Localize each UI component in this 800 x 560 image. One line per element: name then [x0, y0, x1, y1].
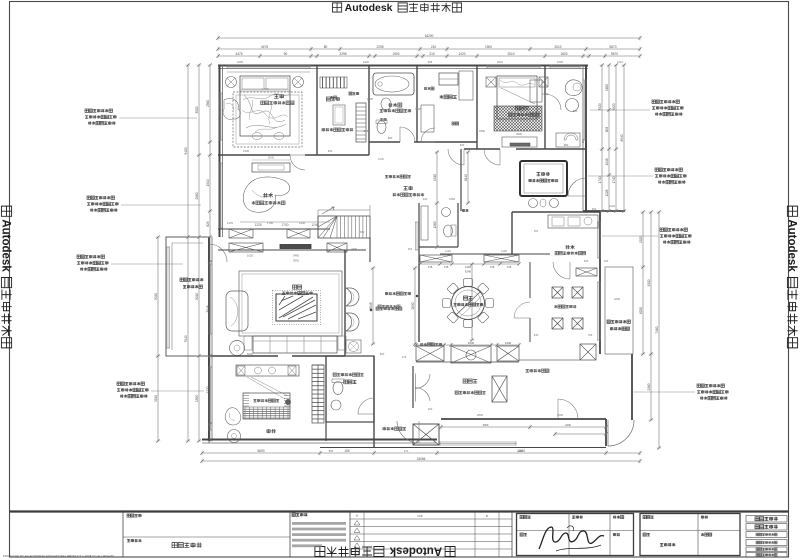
- living entry door arc from bay: [209, 244, 227, 262]
- window label right 3: [660, 228, 663, 231]
- study label: [263, 193, 268, 198]
- svg-text:900: 900: [328, 149, 333, 153]
- svg-text:1020: 1020: [458, 52, 465, 56]
- svg-text:16200: 16200: [425, 34, 434, 38]
- wall under stairs x370: [369, 237, 371, 262]
- svg-text:3520: 3520: [598, 103, 602, 110]
- ensuite sink circle: [566, 99, 579, 112]
- svg-text:1900: 1900: [363, 60, 369, 64]
- svg-text:1225: 1225: [254, 223, 261, 227]
- top dimension chain 2: [218, 48, 640, 50]
- svg-text:Autodesk: Autodesk: [786, 219, 798, 272]
- watermark right (rotated 90): [786, 206, 798, 348]
- svg-text:5670: 5670: [611, 52, 618, 56]
- west kitchen divider x530 lower: [529, 262, 531, 298]
- left dimension chain 3: [209, 65, 211, 441]
- bath sink: [381, 98, 391, 110]
- sofa side tables: [244, 336, 252, 350]
- svg-text:825: 825: [206, 221, 210, 227]
- tea room brick sunken floor: [243, 393, 290, 419]
- bottom wall left y441: [202, 439, 437, 441]
- wall closet2 right x477: [476, 65, 478, 149]
- svg-text:1248: 1248: [605, 158, 609, 165]
- living chaise left: [226, 291, 248, 331]
- exterior wall: lower right x632: [631, 354, 633, 420]
- svg-text:600: 600: [534, 229, 539, 233]
- wall closet/bath x369: [368, 65, 370, 155]
- svg-text:1800: 1800: [479, 129, 485, 133]
- master bed: [240, 76, 290, 136]
- svg-text:2295: 2295: [339, 52, 346, 56]
- svg-text:1500: 1500: [367, 97, 373, 101]
- svg-text:700: 700: [588, 333, 593, 337]
- svg-text:1025: 1025: [247, 254, 253, 258]
- inner dim master bed width: [240, 91, 290, 93]
- svg-text:160: 160: [428, 407, 433, 411]
- window label right 2: [655, 168, 658, 171]
- svg-text:600: 600: [573, 109, 578, 113]
- kitchen left wall x512: [511, 212, 513, 254]
- svg-text:1120: 1120: [445, 249, 451, 253]
- guest bath sink: [331, 400, 341, 410]
- dining chairs x8: [486, 299, 494, 308]
- svg-text:2060: 2060: [195, 192, 199, 199]
- svg-text:1225: 1225: [227, 221, 233, 225]
- wall daughter room / ensuite x545: [544, 65, 546, 149]
- living window right rail: [341, 271, 343, 336]
- left protrusion bay: [166, 237, 209, 356]
- master bedroom rug: [233, 92, 302, 147]
- svg-text:175: 175: [402, 355, 407, 359]
- svg-text:4475: 4475: [261, 45, 268, 49]
- svg-text:3460: 3460: [293, 254, 299, 258]
- stairs main: [318, 216, 370, 238]
- leisure stools: [529, 199, 538, 208]
- tv set dark rect: [280, 245, 311, 249]
- svg-text:1240: 1240: [299, 221, 305, 225]
- svg-text:800: 800: [388, 136, 393, 140]
- svg-text:1210: 1210: [617, 60, 623, 64]
- door height annotation in left bay: [180, 278, 183, 281]
- svg-text:715: 715: [428, 265, 433, 269]
- svg-text:5670: 5670: [609, 45, 616, 49]
- closet island table: [333, 105, 345, 125]
- svg-text:2560: 2560: [206, 100, 210, 107]
- svg-text:1000: 1000: [378, 157, 384, 161]
- svg-text:980: 980: [564, 143, 569, 147]
- svg-text:6600: 6600: [247, 352, 253, 356]
- corridor/hall wall x374 lower: [373, 356, 375, 448]
- svg-text:5040: 5040: [154, 293, 158, 300]
- svg-text:715: 715: [444, 265, 449, 269]
- svg-text:1360: 1360: [433, 221, 437, 228]
- svg-text:2800: 2800: [477, 413, 483, 417]
- signature box thick: [517, 514, 634, 556]
- right stack cells: [746, 516, 787, 523]
- revision triangles: [354, 521, 360, 526]
- daughter room label: [515, 106, 519, 110]
- leisure room left wall x460: [460, 149, 462, 211]
- svg-text:1650: 1650: [605, 84, 609, 91]
- svg-text:600: 600: [360, 230, 365, 234]
- bottom inner dim under elevator wall: [441, 426, 606, 428]
- kitchen label: [565, 245, 569, 249]
- small WC left x419 upper: [418, 203, 420, 264]
- svg-text:210: 210: [431, 45, 437, 49]
- window dining bottom: [440, 441, 516, 443]
- exterior wall: kitchen right x600: [599, 212, 601, 354]
- bottom dimension chain 2: [202, 460, 640, 462]
- door arc exterior bottom right: [608, 420, 634, 446]
- svg-text:298: 298: [364, 129, 369, 133]
- living sofa long: [253, 336, 337, 353]
- svg-text:1600: 1600: [557, 60, 563, 64]
- tea side cabinet ladder dark: [312, 365, 324, 423]
- guest bath toilet: [333, 382, 343, 395]
- corridor bottom label: [383, 427, 386, 430]
- cell2 drawing title text: [172, 543, 177, 548]
- stairs up arrow: [322, 207, 334, 214]
- left dimension chain 2: [198, 65, 200, 441]
- title block top line: [10, 510, 789, 512]
- kitchen right band y268-276: [576, 268, 597, 276]
- svg-text:Autodesk: Autodesk: [345, 2, 393, 14]
- svg-text:1510: 1510: [433, 174, 437, 181]
- svg-text:900: 900: [408, 247, 413, 251]
- living rug center art dark: [276, 294, 317, 321]
- svg-text:3000: 3000: [483, 423, 489, 427]
- window living left: [208, 264, 210, 334]
- guest bath walls: [326, 356, 374, 422]
- svg-text:4200: 4200: [468, 298, 472, 305]
- elevator hall label: [463, 379, 467, 383]
- west kitchen label: [554, 305, 557, 308]
- tea projector lines: [251, 377, 288, 396]
- svg-text:7460: 7460: [655, 326, 659, 333]
- svg-text:1240: 1240: [311, 223, 318, 227]
- left dimension chain 1: [187, 65, 189, 441]
- svg-text:1200: 1200: [542, 92, 548, 96]
- right dimension chain upper: [601, 65, 603, 211]
- master bed slippers: [252, 133, 262, 140]
- closet2 wardrobe: [439, 73, 458, 85]
- signature squiggle: [539, 527, 604, 549]
- bottom dimension chain 1: [202, 452, 640, 454]
- svg-text:2460: 2460: [647, 383, 651, 390]
- living room rug: [239, 271, 342, 336]
- window master left: [219, 93, 221, 140]
- watermark bottom (rotated 180): [315, 545, 455, 557]
- living room north band y241-250 with tv cabinet: [229, 243, 263, 252]
- guest bath door arc: [358, 398, 374, 414]
- svg-text:1128: 1128: [605, 189, 609, 196]
- svg-text:3540: 3540: [154, 395, 158, 402]
- svg-text:N.B: N.B: [417, 514, 422, 518]
- extra tiny annotations texture: [349, 92, 352, 95]
- revision table: [363, 512, 365, 558]
- window bay left: [166, 247, 168, 348]
- window label left 3: [77, 255, 80, 258]
- corridor vertical dim x468: [467, 152, 469, 203]
- svg-text:5000: 5000: [268, 156, 275, 160]
- living corner plant table: [346, 340, 361, 353]
- hall vertical dim chains: [372, 268, 374, 344]
- ensuite vanity: [556, 133, 580, 147]
- daughter rug hatched diamond: [494, 106, 542, 131]
- svg-text:Autodesk: Autodesk: [389, 545, 442, 557]
- left outer chain for bay: [157, 237, 159, 441]
- svg-text:1400: 1400: [521, 143, 527, 147]
- bottom wall right section y419: [441, 418, 606, 420]
- watermark top: Autodesk educational plot stamp: [332, 2, 461, 14]
- svg-text:5040: 5040: [195, 293, 199, 300]
- ensuite door arc: [545, 94, 561, 110]
- bedroom window sill top: [227, 71, 310, 73]
- wall bedroom bottom y155: [218, 154, 290, 156]
- svg-text:1700: 1700: [281, 223, 288, 227]
- svg-text:1510: 1510: [206, 179, 210, 186]
- hall height label: [526, 369, 529, 372]
- svg-text:80: 80: [324, 45, 328, 49]
- svg-text:Autodesk: Autodesk: [0, 219, 12, 272]
- tea room label: [267, 429, 270, 433]
- right dimension chain lower: [642, 212, 644, 354]
- window label left 4: [117, 382, 120, 385]
- living horseshoe chair 1: [346, 288, 359, 306]
- hall window annotations with dots: [416, 295, 418, 297]
- living/tea divider y356: [209, 355, 278, 357]
- wall jog right at y211: [583, 210, 625, 212]
- svg-text:8140: 8140: [465, 270, 472, 274]
- daughter dresser: [502, 137, 537, 147]
- window sill annotations interior: [385, 175, 388, 178]
- guest bath label: [333, 373, 336, 376]
- svg-text:920: 920: [380, 352, 385, 356]
- svg-text:600: 600: [460, 143, 465, 147]
- svg-text:4475: 4475: [235, 52, 242, 56]
- svg-text:400: 400: [584, 259, 589, 263]
- closet shelf band: [320, 77, 347, 88]
- svg-text:640: 640: [534, 333, 539, 337]
- window label left 2: [87, 196, 90, 199]
- svg-text:1.800: 1.800: [262, 87, 269, 91]
- svg-text:905: 905: [428, 60, 433, 64]
- window study left: [219, 163, 221, 228]
- svg-text:2630: 2630: [411, 302, 415, 309]
- closet2 door arc: [421, 128, 435, 142]
- living room right wall x345: [344, 250, 346, 356]
- study cabinet dim 5000: [252, 159, 290, 161]
- master room label: [274, 94, 279, 99]
- elevator shaft box: [413, 424, 439, 445]
- svg-text:1130: 1130: [501, 249, 507, 253]
- wall daughter bottom y149: [464, 148, 500, 150]
- small WC sink: [442, 208, 451, 217]
- svg-text:7040: 7040: [184, 335, 188, 342]
- exterior wall: left upper: [219, 65, 221, 237]
- svg-text:2400: 2400: [351, 247, 357, 251]
- window ensuite top: [550, 65, 580, 67]
- svg-text:1525: 1525: [639, 236, 643, 243]
- svg-text:1500: 1500: [243, 149, 249, 153]
- window label right 4: [697, 384, 700, 387]
- wall master/closet x317: [316, 65, 318, 155]
- hall door arcs top corridor: [290, 155, 305, 170]
- tea kidney chair: [225, 408, 241, 425]
- exterior wall: right upper (x586): [585, 65, 587, 211]
- leisure entry door arc: [448, 149, 464, 165]
- svg-text:1740: 1740: [612, 176, 616, 183]
- kitchen door arc at corridor: [553, 262, 570, 279]
- bottom wall mid y447: [320, 447, 606, 449]
- window tea left: [208, 367, 210, 430]
- stairs winder fan: [318, 216, 337, 238]
- svg-text:2400: 2400: [565, 423, 571, 427]
- svg-text:715: 715: [490, 265, 495, 269]
- closet tall wardrobe ladder: [356, 103, 366, 142]
- watermark left (rotated -90): [0, 206, 12, 348]
- svg-text:2400: 2400: [517, 449, 523, 453]
- small WC bottom y247: [419, 246, 458, 248]
- dining table round with chairs: [452, 287, 485, 320]
- project info box: [640, 514, 740, 556]
- svg-text:420: 420: [423, 197, 428, 201]
- study desk top: [252, 163, 290, 172]
- small cabinet below closet2: [421, 105, 434, 132]
- bath label: [388, 103, 392, 107]
- notes cell paragraph tiny lines: [292, 522, 346, 525]
- wall bath bottom y142: [369, 141, 400, 143]
- svg-text:1700: 1700: [267, 221, 273, 225]
- notes cell header: [292, 513, 295, 516]
- svg-text:24066: 24066: [417, 457, 426, 461]
- svg-text:3602: 3602: [293, 259, 299, 263]
- cell2 divider and labels: [123, 536, 290, 538]
- exterior wall: building top: [218, 65, 588, 67]
- window master top: [227, 65, 310, 67]
- svg-text:1128: 1128: [415, 107, 421, 111]
- study dim line: [240, 221, 330, 223]
- kitchen top wall y212: [512, 211, 600, 213]
- nightstand right with lamp: [293, 77, 304, 88]
- nightstand left with lamp: [226, 77, 237, 88]
- wall bath right x417: [416, 65, 418, 142]
- svg-text:2010: 2010: [554, 45, 561, 49]
- svg-text:850: 850: [329, 449, 334, 453]
- svg-text:210: 210: [429, 52, 435, 56]
- svg-text:4200: 4200: [614, 297, 620, 301]
- exterior wall: left lower x209: [208, 237, 210, 441]
- svg-text:6600: 6600: [257, 449, 264, 453]
- stairs upper landing lines: [318, 209, 370, 211]
- window label right 1: [652, 100, 655, 103]
- svg-text:1300: 1300: [505, 341, 512, 345]
- walk corridor label: [403, 186, 407, 190]
- svg-text:1000: 1000: [557, 413, 563, 417]
- master armchair left: [223, 99, 240, 120]
- small WC right wall x458: [457, 203, 459, 247]
- svg-text:250: 250: [592, 207, 597, 211]
- top dimension chain overall: [218, 37, 640, 39]
- svg-text:1400: 1400: [619, 327, 625, 331]
- ensuite toilet blob: [565, 80, 582, 96]
- svg-text:3600: 3600: [516, 132, 522, 136]
- svg-text:1600: 1600: [560, 52, 567, 56]
- window kitchen right: [597, 222, 599, 258]
- svg-text:1630: 1630: [468, 341, 475, 345]
- svg-text:100: 100: [604, 259, 609, 263]
- window wc right mid: [415, 222, 417, 250]
- leisure door arc: [568, 178, 586, 196]
- dining bottom dim line y345: [416, 344, 519, 346]
- elevator hall column mid: [492, 376, 507, 402]
- svg-text:4500: 4500: [647, 279, 651, 286]
- bathtub top bath: [373, 73, 414, 95]
- bottom right door arc interior: [558, 399, 578, 419]
- svg-text:2010: 2010: [507, 52, 514, 56]
- tea room counter table: [236, 365, 299, 376]
- svg-text:1500: 1500: [195, 395, 199, 402]
- dining bottom wall band y346-362: [416, 346, 444, 361]
- bath door arc: [400, 127, 415, 142]
- small WC shelf: [421, 206, 428, 240]
- svg-text:170: 170: [404, 449, 409, 453]
- tea round chair: [228, 430, 241, 443]
- elevator double door left: [416, 374, 431, 389]
- inner dim corridor below dining band y264: [420, 263, 519, 265]
- kitchen door annotation right strip: [607, 320, 610, 323]
- svg-text:5400: 5400: [184, 147, 188, 154]
- svg-text:3000: 3000: [195, 106, 199, 113]
- dining top band y257-264: [420, 255, 452, 262]
- svg-text:2295: 2295: [376, 45, 383, 49]
- kitchen counter top: [548, 215, 598, 228]
- top dimension chain 3: [218, 55, 640, 57]
- svg-text:803: 803: [605, 127, 609, 133]
- title block cell dividers: [122, 512, 124, 558]
- svg-text:1060: 1060: [449, 197, 455, 201]
- svg-text:1900: 1900: [485, 45, 492, 49]
- daughter desk right: [530, 80, 542, 102]
- svg-text:6540: 6540: [620, 134, 624, 141]
- hall between living and dining x419: [418, 264, 420, 342]
- svg-text:1740: 1740: [598, 176, 602, 183]
- daughter nightstand boxes: [486, 77, 496, 87]
- window daughter top: [487, 65, 540, 67]
- svg-text:2120: 2120: [609, 204, 615, 208]
- svg-text:2010: 2010: [497, 60, 503, 64]
- svg-text:3048: 3048: [369, 302, 373, 309]
- svg-text:PRODUCED BY AN AUTODESK EDUCAT: PRODUCED BY AN AUTODESK EDUCATIONAL PROD…: [3, 554, 114, 558]
- living chair circle-x at tea boundary: [230, 341, 245, 356]
- living horseshoe chair 2: [346, 313, 359, 331]
- daughter room bed: [497, 76, 537, 119]
- closet label: [326, 97, 330, 101]
- svg-text:8140: 8140: [464, 174, 468, 181]
- small WC toilet: [444, 225, 453, 237]
- west kitchen squares: [552, 287, 563, 298]
- window label left 1: [85, 109, 88, 112]
- study chair organic shape: [243, 177, 289, 212]
- bath toilet: [377, 121, 386, 134]
- svg-text:3520: 3520: [612, 103, 616, 110]
- svg-text:150: 150: [344, 449, 350, 453]
- living room label: [292, 285, 296, 289]
- exterior strip right of kitchen: [605, 267, 633, 354]
- svg-text:1900: 1900: [392, 52, 399, 56]
- svg-text:6250: 6250: [639, 307, 643, 314]
- svg-text:90: 90: [284, 52, 288, 56]
